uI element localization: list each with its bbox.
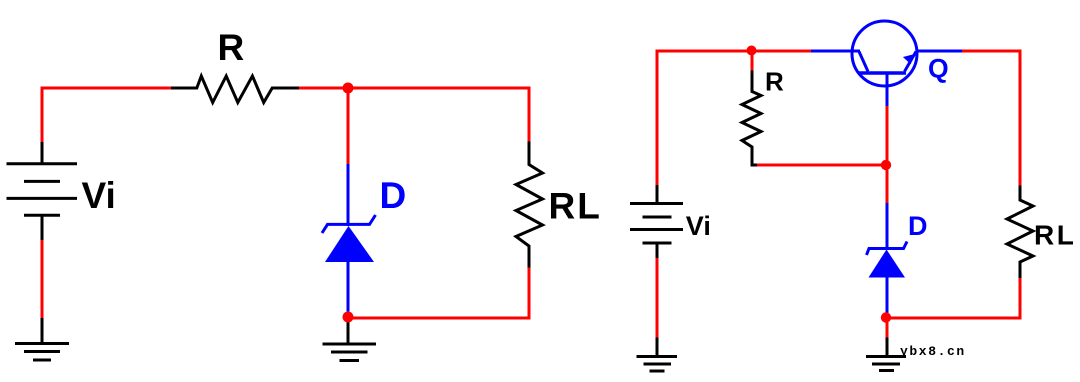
svg-text:D: D xyxy=(908,211,928,241)
svg-text:Q: Q xyxy=(928,54,949,84)
svg-text:R: R xyxy=(765,67,784,97)
svg-text:RL: RL xyxy=(1034,220,1076,251)
svg-text:R: R xyxy=(218,27,245,68)
svg-text:Vi: Vi xyxy=(686,211,711,241)
svg-text:RL: RL xyxy=(549,186,602,227)
svg-text:D: D xyxy=(380,175,407,216)
svg-text:Vi: Vi xyxy=(82,175,116,216)
svg-text:ybx8.cn: ybx8.cn xyxy=(900,344,966,359)
